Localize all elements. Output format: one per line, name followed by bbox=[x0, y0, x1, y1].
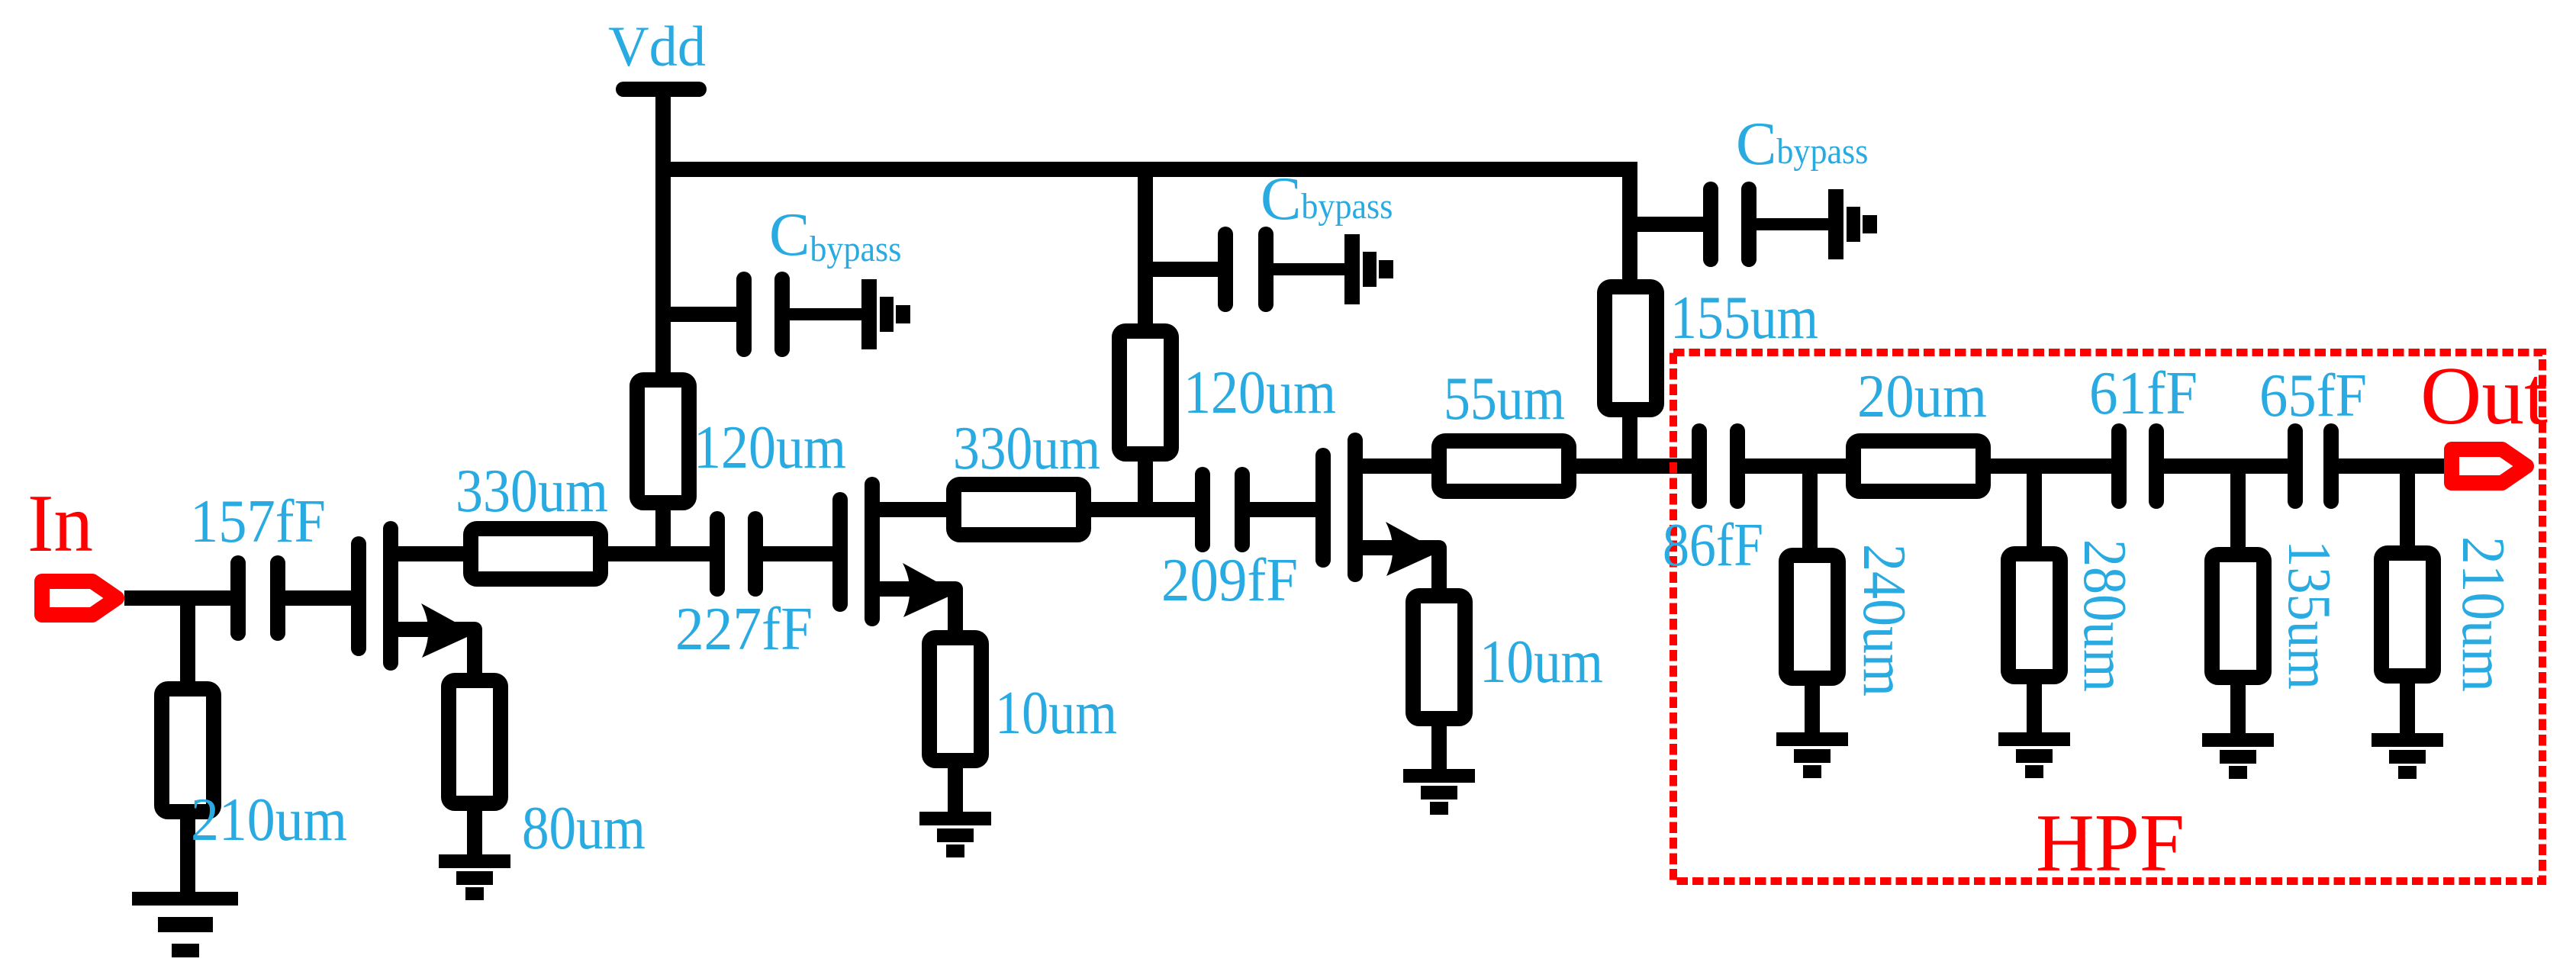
svg-text:HPF: HPF bbox=[2036, 798, 2185, 889]
svg-text:20um: 20um bbox=[1857, 363, 1987, 430]
svg-text:280um: 280um bbox=[2071, 539, 2138, 692]
svg-text:120um: 120um bbox=[694, 414, 846, 481]
svg-text:120um: 120um bbox=[1183, 359, 1336, 426]
svg-text:86fF: 86fF bbox=[1663, 512, 1763, 579]
svg-text:330um: 330um bbox=[953, 415, 1100, 482]
svg-text:10um: 10um bbox=[1480, 629, 1603, 696]
svg-text:227fF: 227fF bbox=[675, 596, 813, 663]
svg-text:210um: 210um bbox=[191, 787, 347, 854]
svg-text:10um: 10um bbox=[995, 680, 1117, 747]
svg-text:210um: 210um bbox=[2449, 536, 2516, 692]
svg-text:135um: 135um bbox=[2275, 540, 2343, 690]
svg-text:80um: 80um bbox=[522, 795, 646, 862]
svg-text:155um: 155um bbox=[1670, 285, 1818, 352]
svg-text:65fF: 65fF bbox=[2259, 362, 2367, 429]
svg-text:55um: 55um bbox=[1444, 365, 1565, 433]
svg-text:Vdd: Vdd bbox=[608, 15, 706, 79]
svg-text:330um: 330um bbox=[456, 458, 608, 525]
svg-text:240um: 240um bbox=[1850, 544, 1918, 697]
svg-text:In: In bbox=[27, 478, 93, 569]
svg-text:157fF: 157fF bbox=[190, 488, 326, 555]
svg-text:61fF: 61fF bbox=[2089, 360, 2198, 427]
svg-text:209fF: 209fF bbox=[1161, 547, 1298, 614]
svg-text:Out: Out bbox=[2420, 351, 2548, 442]
